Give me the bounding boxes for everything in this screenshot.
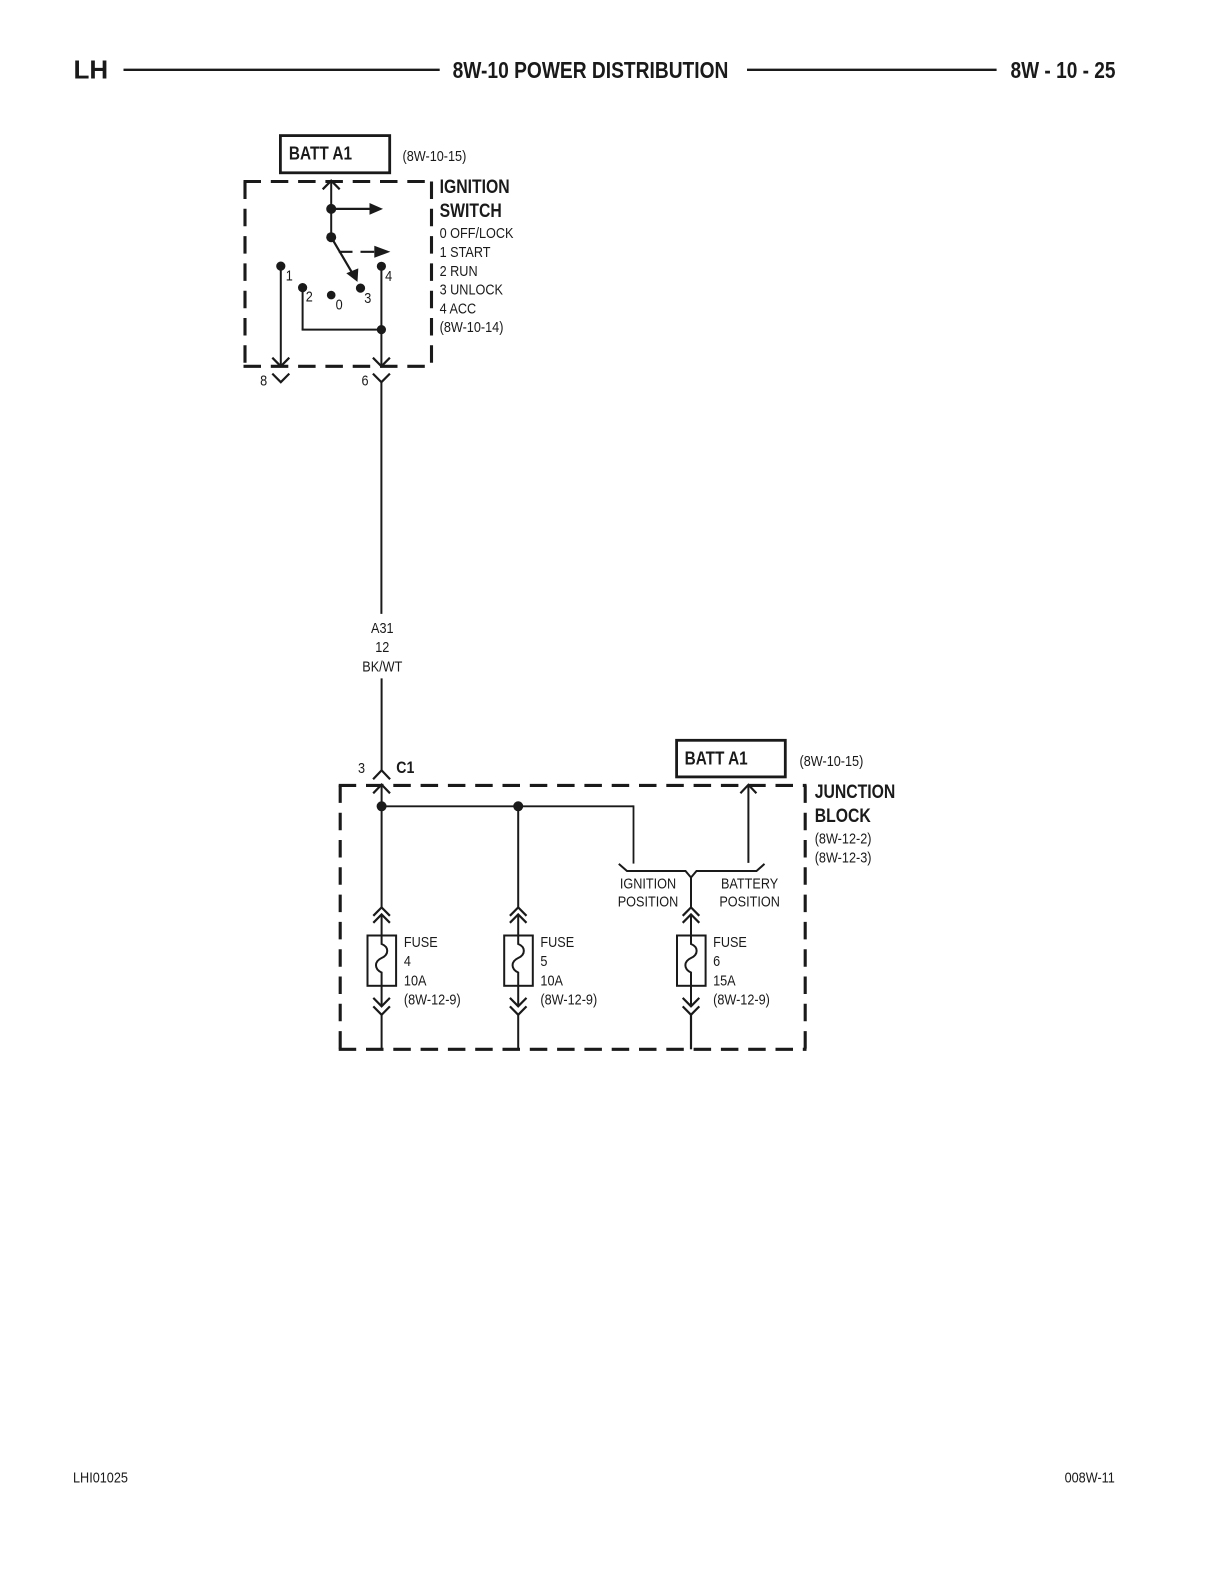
pin 6 connector half	[361, 371, 389, 388]
header rule right	[747, 69, 997, 71]
svg-text:1: 1	[286, 266, 293, 283]
svg-text:2 RUN: 2 RUN	[440, 262, 478, 279]
svg-text:(8W-12-2): (8W-12-2)	[815, 829, 872, 846]
wire C1 into junction block with arrowhead	[373, 785, 390, 807]
svg-text:10A: 10A	[540, 971, 563, 988]
wire bus elbow down to ignition position	[633, 805, 635, 863]
svg-text:4 ACC: 4 ACC	[440, 299, 477, 316]
svg-text:FUSE: FUSE	[713, 933, 747, 950]
svg-text:BATTERY: BATTERY	[721, 874, 778, 891]
svg-text:12: 12	[375, 638, 389, 655]
pin 8 connector half	[260, 371, 289, 388]
svg-text:C1: C1	[396, 759, 414, 777]
svg-text:FUSE: FUSE	[540, 933, 574, 950]
reference (8W-10-15) top	[403, 147, 467, 164]
svg-text:LH: LH	[74, 55, 109, 85]
bus bar brace (ignition/battery position)	[619, 864, 765, 878]
connector C1 fork	[373, 770, 390, 779]
svg-text:4: 4	[404, 952, 411, 969]
node BATT A1 (feed box, top)	[280, 136, 389, 173]
svg-text:4: 4	[385, 267, 392, 284]
svg-text:5: 5	[540, 952, 547, 969]
wire BATT feed into switch	[330, 183, 332, 209]
fuse F5	[504, 936, 533, 986]
wire fuse6 feed	[690, 878, 692, 908]
svg-text:IGNITION: IGNITION	[620, 874, 676, 891]
svg-text:LHI01025: LHI01025	[73, 1469, 128, 1486]
header rule left	[124, 69, 440, 71]
page header title 8W-10 POWER DISTRIBUTION	[453, 58, 729, 83]
svg-text:0 OFF/LOCK: 0 OFF/LOCK	[440, 224, 515, 241]
svg-text:(8W-10-14): (8W-10-14)	[440, 318, 504, 335]
svg-text:8W - 10 - 25: 8W - 10 - 25	[1011, 58, 1116, 83]
svg-text:6: 6	[361, 371, 368, 388]
pin 3 label at C1	[358, 759, 365, 776]
splice chevrons below fuse 6	[683, 998, 700, 1015]
ignition switch label text	[440, 176, 515, 336]
wire fuse 5 output	[517, 1015, 519, 1050]
splice chevrons below fuse 5	[510, 998, 527, 1015]
svg-text:15A: 15A	[713, 971, 736, 988]
wire below fuse 4	[381, 986, 383, 1007]
fuse F5 label	[540, 933, 597, 1008]
svg-text:A31: A31	[371, 619, 394, 636]
node wiper pivot dot	[326, 232, 336, 242]
wire into fuse 6	[690, 914, 692, 935]
contact 0	[327, 291, 343, 313]
svg-text:POSITION: POSITION	[618, 892, 679, 909]
svg-text:3 UNLOCK: 3 UNLOCK	[440, 281, 504, 298]
junction block label text	[815, 781, 896, 866]
node bus junction 2	[513, 801, 523, 811]
svg-text:FUSE: FUSE	[404, 933, 438, 950]
junction block dashed box	[339, 785, 807, 1049]
svg-text:0: 0	[336, 295, 343, 312]
svg-text:BATT A1: BATT A1	[685, 748, 748, 769]
footer drawing number 008W-11	[1065, 1468, 1115, 1485]
svg-text:POSITION: POSITION	[719, 892, 780, 909]
connector C1 label	[396, 759, 414, 777]
wire into fuse 4	[381, 914, 383, 935]
fuse F6 label	[713, 933, 770, 1008]
svg-text:BK/WT: BK/WT	[362, 657, 403, 674]
contact 4	[377, 262, 393, 285]
ignition switch S1 dashed box	[244, 182, 433, 367]
wire fuse4 feed	[381, 806, 383, 907]
node BATT A1 (feed box, junction block)	[677, 740, 786, 777]
wiper arrow RUN (solid)	[331, 203, 383, 215]
fuse F4	[368, 936, 397, 986]
splice chevrons above fuse 6	[683, 907, 700, 922]
svg-text:(8W-12-3): (8W-12-3)	[815, 849, 872, 866]
svg-text:8W-10 POWER DISTRIBUTION: 8W-10 POWER DISTRIBUTION	[453, 58, 729, 83]
svg-text:(8W-12-9): (8W-12-9)	[404, 991, 461, 1008]
arrowhead up at switch feed	[323, 181, 340, 190]
page number 8W - 10 - 25	[1011, 58, 1116, 83]
node bus junction 1	[377, 801, 387, 811]
svg-text:8: 8	[260, 371, 267, 388]
wire fuse 6 output	[690, 1015, 692, 1050]
splice chevrons below fuse 4	[373, 998, 390, 1015]
wire bus horizontal	[382, 805, 634, 807]
svg-text:BATT A1: BATT A1	[289, 143, 352, 164]
reference (8W-10-15) junction block	[800, 752, 864, 769]
wire contact 1 to pin 8	[272, 266, 289, 366]
node contact4/contact2 junction	[377, 325, 386, 334]
wire contact 4 to pin 6	[373, 266, 390, 366]
svg-text:JUNCTION: JUNCTION	[815, 781, 896, 803]
svg-text:SWITCH: SWITCH	[440, 200, 502, 222]
svg-text:10A: 10A	[404, 971, 427, 988]
wire below fuse 6	[690, 986, 692, 1007]
svg-text:6: 6	[713, 952, 720, 969]
contact 1	[276, 262, 293, 284]
svg-text:008W-11: 008W-11	[1065, 1468, 1115, 1485]
wire A31 upper segment	[380, 382, 382, 614]
wiper arrow ACC (dashed)	[339, 246, 391, 258]
splice chevrons above fuse 5	[510, 907, 527, 922]
wire BATT A1 into junction block with arrowhead	[740, 785, 756, 863]
wire fuse 4 output	[381, 1015, 383, 1050]
svg-text:3: 3	[364, 289, 371, 306]
node common feed dot	[326, 204, 336, 214]
wiper blade toward contact 3	[331, 237, 358, 282]
splice chevrons above fuse 4	[373, 907, 390, 922]
svg-text:(8W-12-9): (8W-12-9)	[540, 991, 597, 1008]
label ignition position	[618, 874, 679, 909]
wire fuse5 feed	[517, 806, 519, 907]
svg-text:2: 2	[306, 287, 313, 304]
fuse F4 label	[404, 933, 461, 1008]
footer sheet code LHI01025	[73, 1469, 128, 1486]
svg-text:3: 3	[358, 759, 365, 776]
contact 3	[356, 284, 372, 307]
svg-text:1 START: 1 START	[440, 243, 491, 260]
label battery position	[719, 874, 780, 909]
svg-text:BLOCK: BLOCK	[815, 805, 871, 827]
wire into fuse 5	[517, 914, 519, 935]
wire A31 lower segment	[381, 678, 383, 770]
wire contact 2 to junction	[302, 288, 382, 330]
wire below fuse 5	[517, 986, 519, 1007]
wire common to lower dot	[330, 209, 332, 237]
fuse F6	[677, 936, 706, 986]
svg-text:IGNITION: IGNITION	[440, 176, 510, 198]
svg-text:(8W-10-15): (8W-10-15)	[800, 752, 864, 769]
contact 2	[298, 283, 313, 305]
svg-text:(8W-12-9): (8W-12-9)	[713, 991, 770, 1008]
page header title LH	[74, 55, 109, 85]
wire label A31 12 BK/WT	[362, 619, 403, 675]
svg-text:(8W-10-15): (8W-10-15)	[403, 147, 467, 164]
